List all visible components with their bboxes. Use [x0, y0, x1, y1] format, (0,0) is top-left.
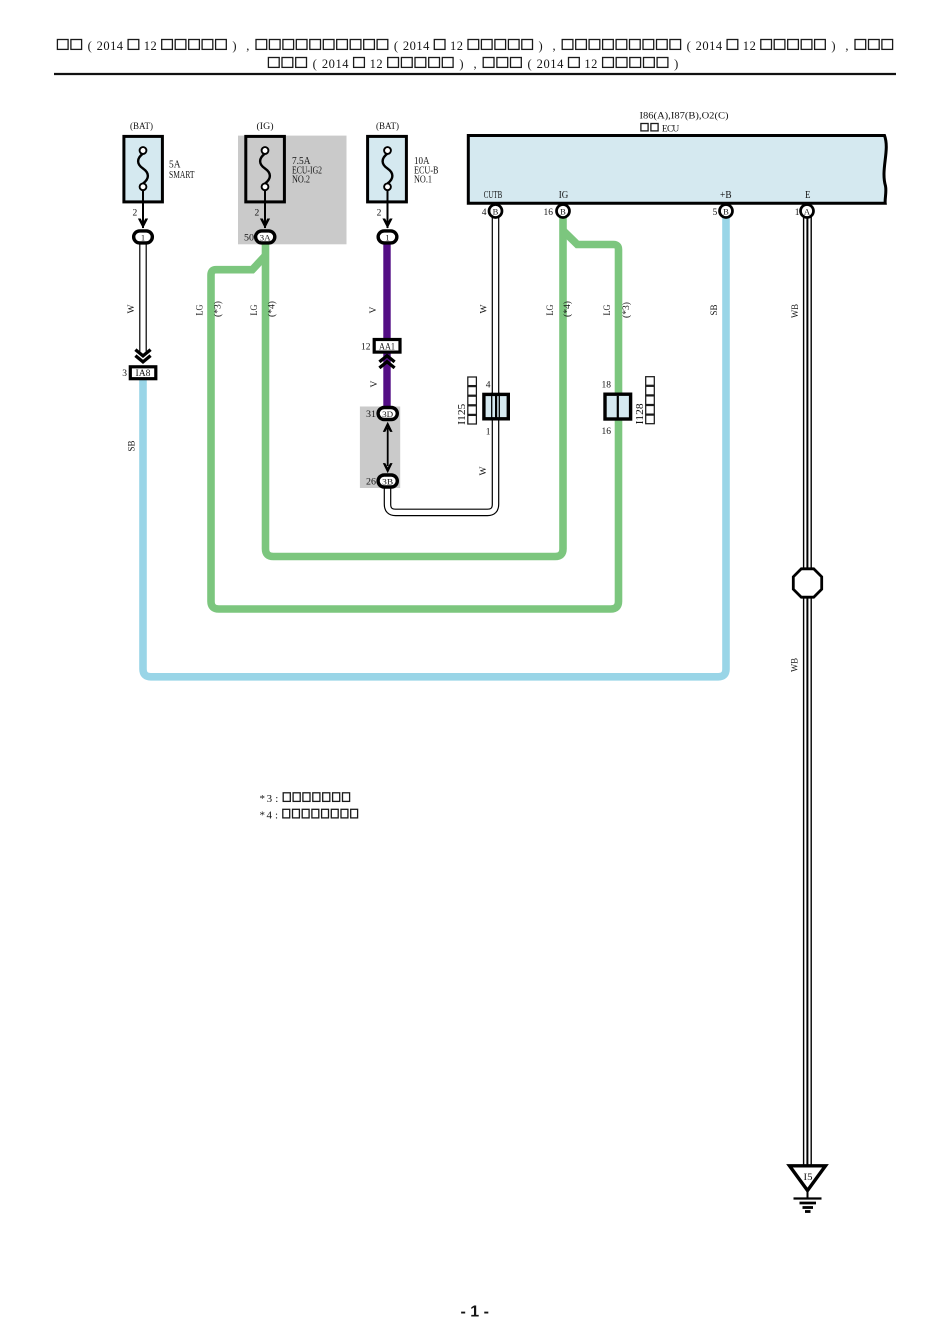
svg-text:(BAT): (BAT): [376, 121, 399, 132]
chevron arrows out of AA1: [379, 356, 394, 368]
fuse F1 5A SMART: [124, 121, 162, 228]
svg-text:1: 1: [486, 428, 491, 438]
svg-text:2: 2: [696, 39, 702, 53]
svg-text:I128: I128: [635, 403, 646, 424]
arrow into connector 1 (F1): [138, 219, 148, 229]
svg-text:I86(A),I87(B),O2(C): I86(A),I87(B),O2(C): [640, 111, 729, 122]
svg-text:3B: 3B: [382, 476, 393, 486]
svg-text:B: B: [493, 206, 499, 216]
connector oval 3B with pin 26: [366, 475, 397, 488]
connector oval 1 (F3): [378, 231, 397, 243]
svg-text:W: W: [480, 304, 490, 313]
svg-text:*: *: [259, 793, 265, 805]
highlight background of fuse F2: [238, 136, 347, 245]
svg-text:,: ,: [473, 57, 476, 71]
svg-text:1: 1: [370, 57, 376, 71]
fuse F2 value label 7.5A ECU-IG2 NO.2: [292, 156, 322, 186]
svg-text:- 1 -: - 1 -: [460, 1304, 488, 1321]
junction double arrow between 3D and 3B: [383, 422, 393, 473]
svg-text:B: B: [723, 206, 729, 216]
svg-text:): ): [459, 57, 463, 71]
svg-text:IA8: IA8: [136, 368, 152, 378]
svg-text:0: 0: [543, 57, 549, 71]
svg-text:(*3): (*3): [621, 302, 631, 318]
svg-text:(BAT): (BAT): [130, 121, 153, 132]
svg-text:): ): [539, 39, 543, 53]
svg-text:,: ,: [845, 39, 848, 53]
svg-text:(: (: [687, 39, 691, 53]
svg-text:3: 3: [122, 369, 127, 379]
svg-text:0: 0: [702, 39, 708, 53]
svg-text:A: A: [804, 206, 811, 216]
svg-text:NO.1: NO.1: [414, 175, 432, 186]
svg-text:): ): [831, 39, 835, 53]
svg-text:1: 1: [795, 208, 800, 218]
wire LG (*4) loop: fuse F2 to ECU IG: [266, 217, 564, 557]
svg-text:5: 5: [713, 208, 718, 218]
svg-text:SB: SB: [128, 441, 138, 452]
svg-text:1: 1: [144, 39, 150, 53]
svg-text:2: 2: [376, 57, 382, 71]
connector oval 1 (F1): [134, 231, 153, 243]
svg-text:4: 4: [266, 810, 272, 822]
connector oval 3D with pin 31: [366, 408, 397, 421]
svg-text:LG: LG: [196, 304, 206, 315]
svg-text:3A: 3A: [260, 232, 272, 242]
wire LG (*3) loop: branch from F2 wire to ECU IG branch: [211, 231, 619, 610]
svg-text:31: 31: [366, 410, 376, 420]
svg-text:(: (: [528, 57, 532, 71]
junction octagon on WB wire: [793, 569, 821, 597]
svg-text:2: 2: [750, 39, 756, 53]
svg-text:4: 4: [423, 39, 430, 53]
fuse F2 7.5A ECU-IG2 NO.2: [246, 121, 285, 228]
svg-text:0: 0: [329, 57, 335, 71]
highlight background of connectors 3D/3B: [360, 407, 400, 489]
svg-text:WB: WB: [791, 304, 801, 318]
arrow into connector 1 (F3): [382, 219, 392, 229]
svg-text:18: 18: [602, 381, 612, 391]
svg-text:50: 50: [244, 234, 254, 244]
junction connector I128 label 接线连接器: [635, 403, 646, 424]
svg-text:1: 1: [709, 39, 715, 53]
svg-text:2: 2: [377, 209, 382, 219]
svg-text:2: 2: [403, 39, 409, 53]
svg-text:4: 4: [482, 208, 487, 218]
svg-text:1: 1: [385, 232, 389, 242]
wire W: ECU CUTB through I125 to connector 3B (double line): [388, 216, 496, 512]
svg-text:2: 2: [254, 209, 259, 219]
connector oval 3A with pin 50: [244, 231, 275, 244]
junction connector I128: [602, 381, 631, 438]
wire W: fuse F1 to connector IA8 (double line): [139, 242, 147, 352]
svg-text:I5: I5: [804, 1173, 813, 1183]
svg-text:3: 3: [267, 793, 273, 805]
fuse F1 value label 5A SMART: [169, 160, 195, 182]
svg-text:26: 26: [366, 478, 376, 488]
svg-text:V: V: [369, 306, 379, 313]
svg-text:1: 1: [141, 232, 145, 242]
svg-text:1: 1: [110, 39, 116, 53]
svg-text:LG: LG: [250, 304, 260, 315]
svg-text:4: 4: [557, 57, 564, 71]
svg-text:1: 1: [335, 57, 341, 71]
svg-text::: :: [275, 810, 278, 822]
svg-text:1: 1: [584, 57, 590, 71]
svg-text:NO.2: NO.2: [292, 175, 310, 186]
wire WB: ECU E to ground I5 (double line with center line): [803, 216, 812, 1166]
svg-text:2: 2: [322, 57, 328, 71]
junction connector I125: [484, 381, 508, 438]
svg-text:1: 1: [416, 39, 422, 53]
svg-text:(*4): (*4): [562, 301, 572, 317]
svg-text:(: (: [88, 39, 92, 53]
ECU pin circle A (1, E): [795, 205, 814, 218]
svg-text:4: 4: [716, 39, 723, 53]
svg-text:3D: 3D: [382, 409, 393, 419]
svg-text:1: 1: [550, 57, 556, 71]
svg-text:(*4): (*4): [267, 301, 277, 317]
svg-text:2: 2: [97, 39, 103, 53]
header title: [57, 39, 892, 71]
svg-text:0: 0: [410, 39, 416, 53]
svg-text:,: ,: [246, 39, 249, 53]
svg-text:*: *: [259, 810, 265, 822]
svg-text:,: ,: [553, 39, 556, 53]
svg-text:2: 2: [537, 57, 543, 71]
svg-text:(*3): (*3): [213, 301, 223, 317]
svg-text:CUTB: CUTB: [484, 189, 503, 201]
svg-text:0: 0: [103, 39, 109, 53]
svg-text:2: 2: [132, 209, 137, 219]
svg-text:1: 1: [450, 39, 456, 53]
svg-text:(: (: [394, 39, 398, 53]
svg-text:(: (: [313, 57, 317, 71]
ECU U1 I86(A),I87(B),O2(C): [468, 111, 886, 204]
svg-text:LG: LG: [546, 304, 556, 315]
chevron arrows into IA8: [135, 350, 150, 362]
svg-text:): ): [674, 57, 678, 71]
fuse F3 value label 10A ECU-B NO.1: [414, 156, 439, 186]
svg-text:SB: SB: [710, 305, 720, 316]
svg-text:B: B: [560, 206, 566, 216]
svg-text:WB: WB: [791, 658, 801, 672]
svg-text:16: 16: [544, 208, 554, 218]
header rule: [54, 73, 896, 75]
svg-text::: :: [275, 793, 278, 805]
svg-text:(IG): (IG): [257, 121, 274, 132]
svg-text:U: U: [672, 125, 679, 135]
connector AA1 with pin 12: [361, 340, 400, 353]
svg-text:+B: +B: [720, 189, 732, 201]
ECU pin circle B (4, CUTB): [482, 205, 502, 218]
ECU pin circle B (5, +B): [713, 205, 733, 218]
fuse F3 10A ECU-B NO.1: [368, 121, 407, 228]
svg-text:W: W: [127, 304, 137, 313]
svg-text:2: 2: [150, 39, 156, 53]
svg-text:E: E: [805, 189, 811, 201]
svg-text:SMART: SMART: [169, 170, 195, 181]
svg-text:5A: 5A: [169, 160, 181, 171]
svg-text:): ): [232, 39, 236, 53]
arrow into connector 3A: [260, 219, 270, 229]
svg-text:LG: LG: [603, 304, 613, 315]
svg-text:16: 16: [602, 427, 612, 437]
svg-text:2: 2: [457, 39, 463, 53]
ground I5: [790, 1166, 826, 1212]
svg-text:4: 4: [342, 57, 349, 71]
junction connector I125 label 接线连接器: [457, 404, 468, 425]
svg-text:AA1: AA1: [379, 342, 395, 352]
ECU pin circle B (16, IG): [544, 205, 570, 218]
svg-text:2: 2: [591, 57, 597, 71]
wire V: fuse F3 to connector AA1 to connector 3D: [383, 243, 390, 406]
svg-text:1: 1: [743, 39, 749, 53]
svg-text:W: W: [479, 466, 489, 475]
connector IA8 with pin 3: [122, 367, 156, 379]
svg-text:12: 12: [361, 343, 371, 353]
svg-text:V: V: [370, 380, 380, 387]
svg-text:4: 4: [486, 381, 491, 391]
svg-text:I125: I125: [457, 404, 468, 425]
wire SB (F1 IA8 to ECU +B): [143, 217, 726, 677]
svg-text:IG: IG: [559, 189, 569, 201]
svg-text:4: 4: [117, 39, 124, 53]
